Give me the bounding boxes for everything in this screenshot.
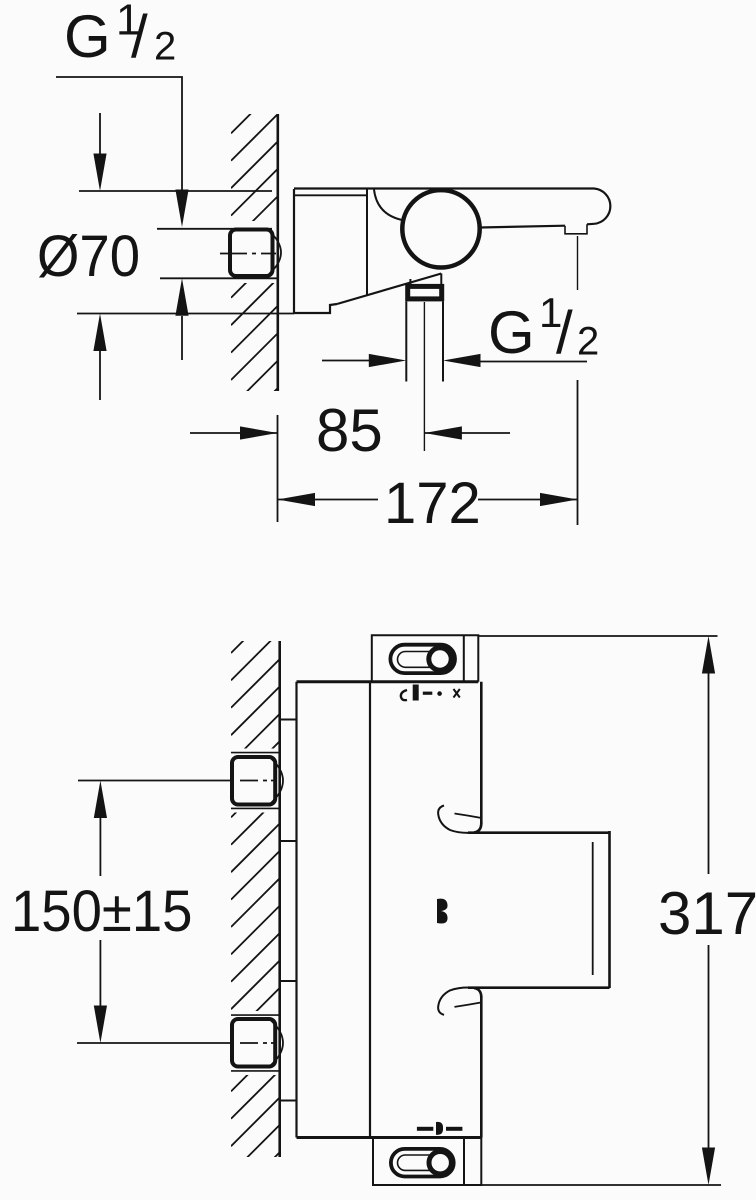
handle housing top (top view) bbox=[372, 635, 479, 682]
extension line y=278.3 (union nut bottom) bbox=[160, 277, 279, 279]
shower pipe collar nut (side view) bbox=[408, 286, 442, 299]
svg-text:172: 172 bbox=[384, 471, 481, 536]
extension line y=1185 (body bottom, for 317) bbox=[481, 1184, 721, 1186]
spout end edge (top view) bbox=[608, 831, 611, 988]
spout end cap and underside (side view) bbox=[480, 189, 610, 228]
body top edge / spout top (side view) bbox=[294, 189, 594, 221]
mounting plate bottom edge (top view) bbox=[297, 1136, 482, 1139]
wall hatch (top view) bbox=[224, 604, 280, 1200]
union nut 1 (top view) bbox=[232, 757, 283, 805]
svg-text:/: / bbox=[556, 299, 573, 366]
spout end centre line bbox=[577, 236, 579, 290]
extension line y=1043 (inlet 2 centre) bbox=[77, 1042, 230, 1044]
handle slot pill top (top view) bbox=[390, 645, 455, 673]
dimension 172 bbox=[278, 471, 578, 536]
union nut 1 clearance lines (top view) bbox=[231, 753, 280, 809]
shower pipe centre line / 85 extension bbox=[423, 302, 425, 451]
svg-text:G: G bbox=[488, 299, 535, 366]
extension line x=277.5 below wall bbox=[277, 415, 279, 522]
union nut 2 (top view) bbox=[232, 1019, 283, 1067]
extension line y=191 (escutcheon top) bbox=[79, 190, 272, 192]
dimension arrow down at x=100 (to escutcheon top) bbox=[93, 113, 106, 191]
body right edge lower segment (top view) bbox=[480, 997, 483, 1138]
extension line y=313.5 (escutcheon bottom) bbox=[77, 313, 294, 315]
extension line y=780.5 (inlet 1 centre) bbox=[78, 780, 230, 782]
extension line y=228.8 (union nut top) bbox=[157, 228, 272, 230]
handle slot pill bottom (top view) bbox=[391, 1149, 454, 1177]
dimension 150±15 bbox=[11, 781, 192, 1044]
spout top edge (top view) bbox=[468, 823, 610, 833]
dimension 85 bbox=[190, 397, 510, 464]
wall face line (top view) bbox=[278, 641, 281, 1157]
extension line y=636 (body top, for 317) bbox=[478, 635, 717, 637]
label G 1/2 (top left) bbox=[64, 0, 176, 70]
temperature scale icons (top view) bbox=[401, 685, 460, 701]
label Ø70 bbox=[37, 223, 140, 288]
spout outlet nub (side view) bbox=[565, 224, 587, 234]
wall face line (side view) bbox=[276, 114, 279, 391]
svg-text:317: 317 bbox=[658, 880, 756, 947]
mounting plate left edge (top view) bbox=[295, 682, 297, 1138]
wall hatch (side view) bbox=[224, 87, 278, 463]
mounting plate top edge (top view) bbox=[297, 680, 479, 683]
escutcheon bracket (side view) bbox=[294, 189, 441, 313]
spout bottom edge (top view) bbox=[468, 988, 610, 998]
body front edge (top view) bbox=[369, 682, 371, 1138]
label G 1/2 (side view) bbox=[488, 289, 599, 366]
volume scale icon (top view) bbox=[417, 1122, 463, 1135]
extension line x=577.5 (spout end, below label) bbox=[577, 380, 579, 525]
union nut (side view) bbox=[220, 230, 281, 277]
dimension arrow up at x=100 (to escutcheon bottom) bbox=[93, 314, 106, 401]
spout inner detail line (top view) bbox=[592, 842, 594, 975]
handle housing bottom (top view) bbox=[373, 1138, 481, 1186]
svg-text:150±15: 150±15 bbox=[11, 878, 192, 943]
leader line for G 1/2 (top) bbox=[56, 77, 189, 227]
pictogram on body (top view) bbox=[437, 899, 448, 924]
dimension 317 bbox=[658, 636, 756, 1185]
svg-text:Ø70: Ø70 bbox=[37, 223, 140, 288]
svg-text:G: G bbox=[64, 3, 111, 70]
G 1/2 dimension arrows at shower pipe bbox=[322, 354, 587, 367]
svg-text:2: 2 bbox=[154, 25, 176, 69]
shower pipe neck (side view) bbox=[410, 274, 441, 285]
spout shoulder curve top (top view) bbox=[438, 806, 481, 833]
dimension arrow up at x=182 (to union nut bottom) bbox=[175, 278, 188, 360]
svg-text:/: / bbox=[131, 3, 148, 70]
svg-text:85: 85 bbox=[316, 397, 383, 464]
union nut 2 clearance lines (top view) bbox=[231, 1015, 280, 1071]
svg-text:2: 2 bbox=[577, 320, 599, 364]
body right edge upper segment (top view) bbox=[480, 682, 483, 824]
union boss edges between wall and plate bbox=[280, 720, 297, 1101]
spout shoulder curve bottom (top view) bbox=[438, 987, 481, 1014]
shower pipe walls (side view) bbox=[406, 302, 443, 382]
thermostat knob circle (side view) bbox=[402, 190, 479, 267]
